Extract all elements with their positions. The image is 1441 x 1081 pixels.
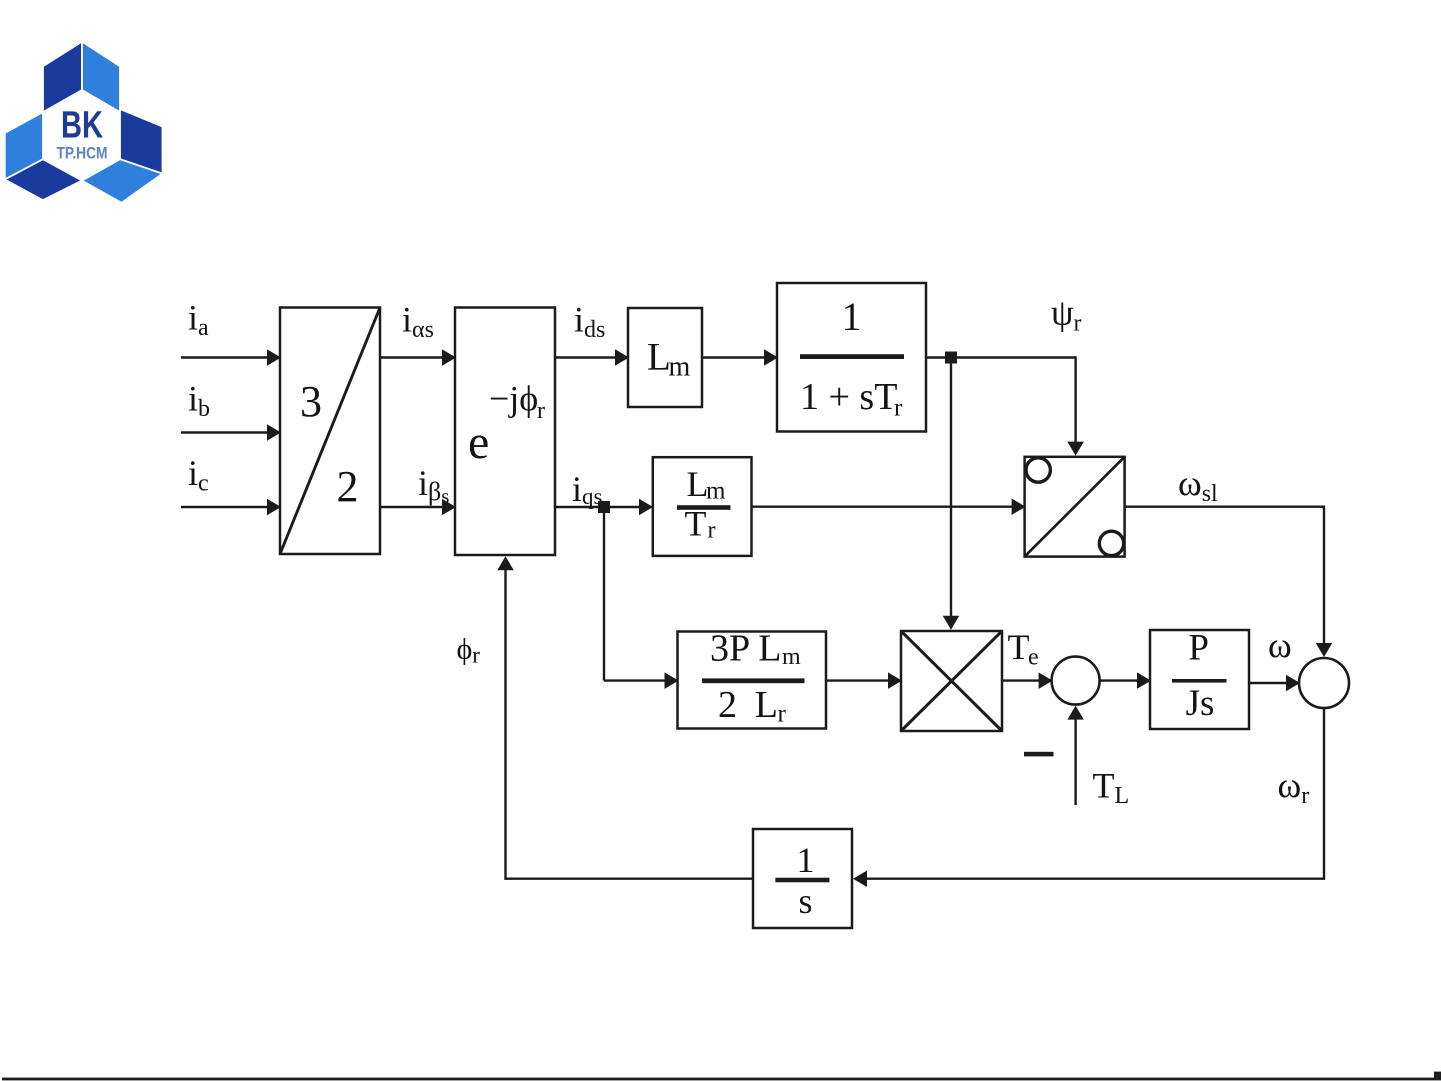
svg-text:P: P xyxy=(1188,628,1209,669)
wire ib into 3/2 block xyxy=(181,424,281,441)
wire i_qs branch to torque gain block xyxy=(604,513,679,689)
svg-text:s: s xyxy=(798,881,812,921)
svg-text:3: 3 xyxy=(300,377,322,426)
BK TP.HCM university logo xyxy=(5,42,163,203)
svg-text:iqs: iqs xyxy=(572,469,603,509)
wire omega_r feedback down and left into integrator xyxy=(853,708,1325,887)
wire psi_r output xyxy=(926,356,1084,455)
bottom border line xyxy=(2,1072,1441,1081)
svg-text:ωsl: ωsl xyxy=(1178,463,1218,507)
block 1/(1+sTr) rotor flux filter xyxy=(777,283,926,432)
svg-text:1: 1 xyxy=(842,294,862,339)
svg-text:1 + sT: 1 + sT xyxy=(800,376,897,418)
svg-text:e: e xyxy=(468,416,489,469)
svg-text:3P L: 3P L xyxy=(710,628,781,670)
svg-text:T: T xyxy=(685,504,707,544)
svg-text:1: 1 xyxy=(797,840,815,880)
svg-text:ωr: ωr xyxy=(1278,765,1310,809)
wire omega_sl to summer S2 xyxy=(1125,506,1333,658)
svg-text:ω: ω xyxy=(1268,625,1292,665)
wire Lm/Tr to divider xyxy=(752,498,1026,515)
summer S1 torque summing node xyxy=(1052,657,1100,705)
wire ic into 3/2 block xyxy=(181,499,281,516)
svg-text:2: 2 xyxy=(337,462,359,511)
wire S1 to P/Js block xyxy=(1100,672,1151,689)
svg-text:ids: ids xyxy=(574,300,605,344)
svg-text:r: r xyxy=(537,398,545,424)
block multiplier torque product xyxy=(901,631,1002,731)
wire psi_r down into multiplier xyxy=(943,364,960,630)
wire omega into summer S2 xyxy=(1249,675,1300,692)
svg-text:m: m xyxy=(706,478,726,505)
wire ia into 3/2 block xyxy=(181,349,281,366)
wire i_beta_s to rotator xyxy=(380,499,456,516)
block e^-j.phi_r vector rotator xyxy=(455,308,555,556)
junction node i_qs branch xyxy=(598,501,610,513)
block P/Js mechanical transfer xyxy=(1150,628,1249,730)
svg-text:ϕr: ϕr xyxy=(457,633,481,668)
svg-text:r: r xyxy=(708,518,716,544)
svg-text:Js: Js xyxy=(1186,683,1215,724)
junction node psi_r branch xyxy=(945,352,957,364)
svg-text:ib: ib xyxy=(188,379,210,423)
wire Lm to rotor flux filter xyxy=(702,349,778,366)
wire i_alpha_s to rotator xyxy=(380,349,456,366)
svg-text:ic: ic xyxy=(188,453,209,497)
svg-text:m: m xyxy=(669,352,691,383)
wire torque gain to multiplier xyxy=(826,672,902,689)
svg-text:2: 2 xyxy=(718,684,737,726)
svg-text:ψr: ψr xyxy=(1051,293,1082,337)
block 3/2 three-phase to two-phase transform xyxy=(280,308,380,555)
block Lm magnetizing inductance xyxy=(628,308,702,407)
svg-text:TP.HCM: TP.HCM xyxy=(57,145,108,163)
svg-text:L: L xyxy=(647,335,671,378)
wire i_ds to Lm block xyxy=(555,349,629,366)
svg-text:e: e xyxy=(1028,645,1039,671)
svg-text:BK: BK xyxy=(61,105,103,147)
svg-text:TL: TL xyxy=(1093,766,1130,810)
block Lm/Tr xyxy=(653,457,752,556)
block 3P.Lm/2.Lr torque constant xyxy=(678,628,827,729)
svg-text:L: L xyxy=(755,684,778,726)
svg-text:r: r xyxy=(894,395,903,422)
wire phi_r feedback left and up into rotator xyxy=(497,556,753,880)
svg-text:T: T xyxy=(1008,627,1030,667)
svg-text:ia: ia xyxy=(188,298,209,342)
svg-text:−jϕ: −jϕ xyxy=(489,379,538,419)
block divider slip frequency calculator xyxy=(1025,457,1125,557)
wire i_qs to Lm/Tr block xyxy=(555,499,653,516)
block 1/s integrator xyxy=(753,829,852,928)
svg-text:r: r xyxy=(778,701,787,728)
wire Te into summer S1 xyxy=(1002,672,1053,689)
label minus sign xyxy=(1024,752,1054,757)
wire TL load torque input xyxy=(1067,706,1084,805)
summer S2 speed summing node xyxy=(1299,658,1349,708)
svg-text:iαs: iαs xyxy=(402,300,434,344)
svg-text:m: m xyxy=(782,644,801,670)
